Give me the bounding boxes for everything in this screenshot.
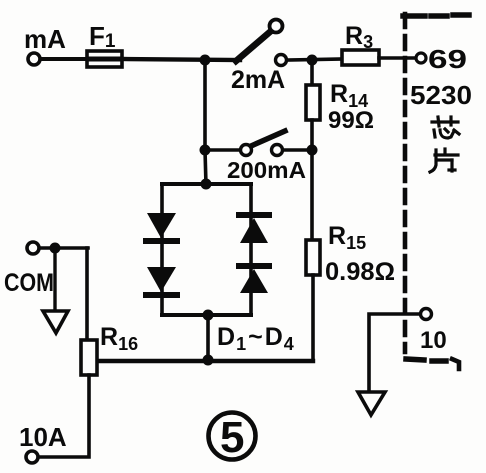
switch S2 fixed contact	[272, 145, 283, 156]
chip boundary dashed	[403, 14, 469, 369]
wire bridge to bottom rail	[206, 315, 210, 361]
svg-text:0.98Ω: 0.98Ω	[325, 258, 395, 286]
terminal pin 10	[421, 309, 432, 320]
label chip char xin	[432, 117, 459, 138]
wire R16 to terminal 10A	[40, 375, 89, 457]
diode D2	[146, 267, 177, 295]
svg-text:200mA: 200mA	[227, 157, 306, 183]
bridge bottom node	[203, 310, 214, 321]
wire node B to R14	[310, 60, 314, 87]
fuse F1	[87, 51, 122, 67]
wire node D to switch S2	[205, 148, 241, 152]
terminal COM	[27, 242, 39, 254]
switch S1 fixed contact	[276, 55, 287, 66]
node A	[200, 55, 211, 66]
svg-text:COM: COM	[4, 269, 54, 297]
wire bridge right	[249, 184, 253, 315]
svg-text:D1~D4: D1~D4	[217, 323, 295, 354]
node D	[200, 145, 211, 156]
svg-text:10: 10	[420, 327, 447, 354]
wire R3 to pin 69	[379, 56, 417, 60]
wire R14 to node C	[310, 120, 314, 152]
svg-text:10A: 10A	[19, 422, 67, 452]
wire bridge bottom	[162, 313, 251, 317]
wire corner down to R16	[85, 248, 89, 341]
node C	[307, 145, 318, 156]
wire COM to corner	[40, 246, 88, 250]
wire node D to bridge top	[205, 150, 206, 185]
terminal mA	[28, 53, 40, 65]
switch S1 2mA arm	[236, 31, 271, 61]
resistor R3	[342, 50, 379, 65]
wire S2 contact to node C	[283, 148, 312, 152]
svg-text:2mA: 2mA	[231, 66, 285, 94]
switch S1 throw circle	[270, 20, 283, 33]
bridge top node	[201, 179, 212, 190]
resistor R15	[306, 240, 320, 275]
node B	[307, 55, 318, 66]
wire node C to R15	[310, 150, 314, 241]
diode D1	[146, 213, 177, 241]
resistor R16	[81, 340, 97, 375]
figure number 5	[209, 413, 256, 463]
bottom rail node	[203, 355, 214, 366]
bottom rail wire	[95, 359, 313, 363]
svg-text:99Ω: 99Ω	[328, 107, 374, 134]
diode D4	[239, 266, 269, 293]
wire fuse to node A	[122, 59, 240, 60]
svg-text:mA: mA	[24, 24, 66, 54]
svg-text:5: 5	[220, 413, 244, 462]
terminal pin 69	[416, 53, 426, 63]
wire node A down to node D	[203, 60, 207, 152]
wire mA to fuse	[41, 57, 88, 61]
ground COM	[43, 311, 68, 333]
resistor R14	[306, 85, 320, 120]
wire bridge top	[162, 182, 251, 186]
terminal 10A	[26, 451, 38, 463]
svg-text:69: 69	[428, 44, 467, 74]
wire COM node to ground	[53, 248, 56, 312]
switch S2 200mA arm	[251, 131, 285, 146]
wire S1 contact to R3	[287, 59, 343, 60]
diode D3	[239, 215, 269, 243]
wire bridge left	[160, 184, 164, 315]
svg-text:5230: 5230	[410, 80, 472, 110]
COM node	[50, 243, 61, 254]
wire R15 to bottom rail	[311, 275, 315, 361]
wire pin 10 to ground	[369, 314, 420, 393]
label chip char pian	[430, 149, 458, 172]
ground right	[358, 392, 385, 415]
switch S2 pole circle	[241, 145, 252, 156]
